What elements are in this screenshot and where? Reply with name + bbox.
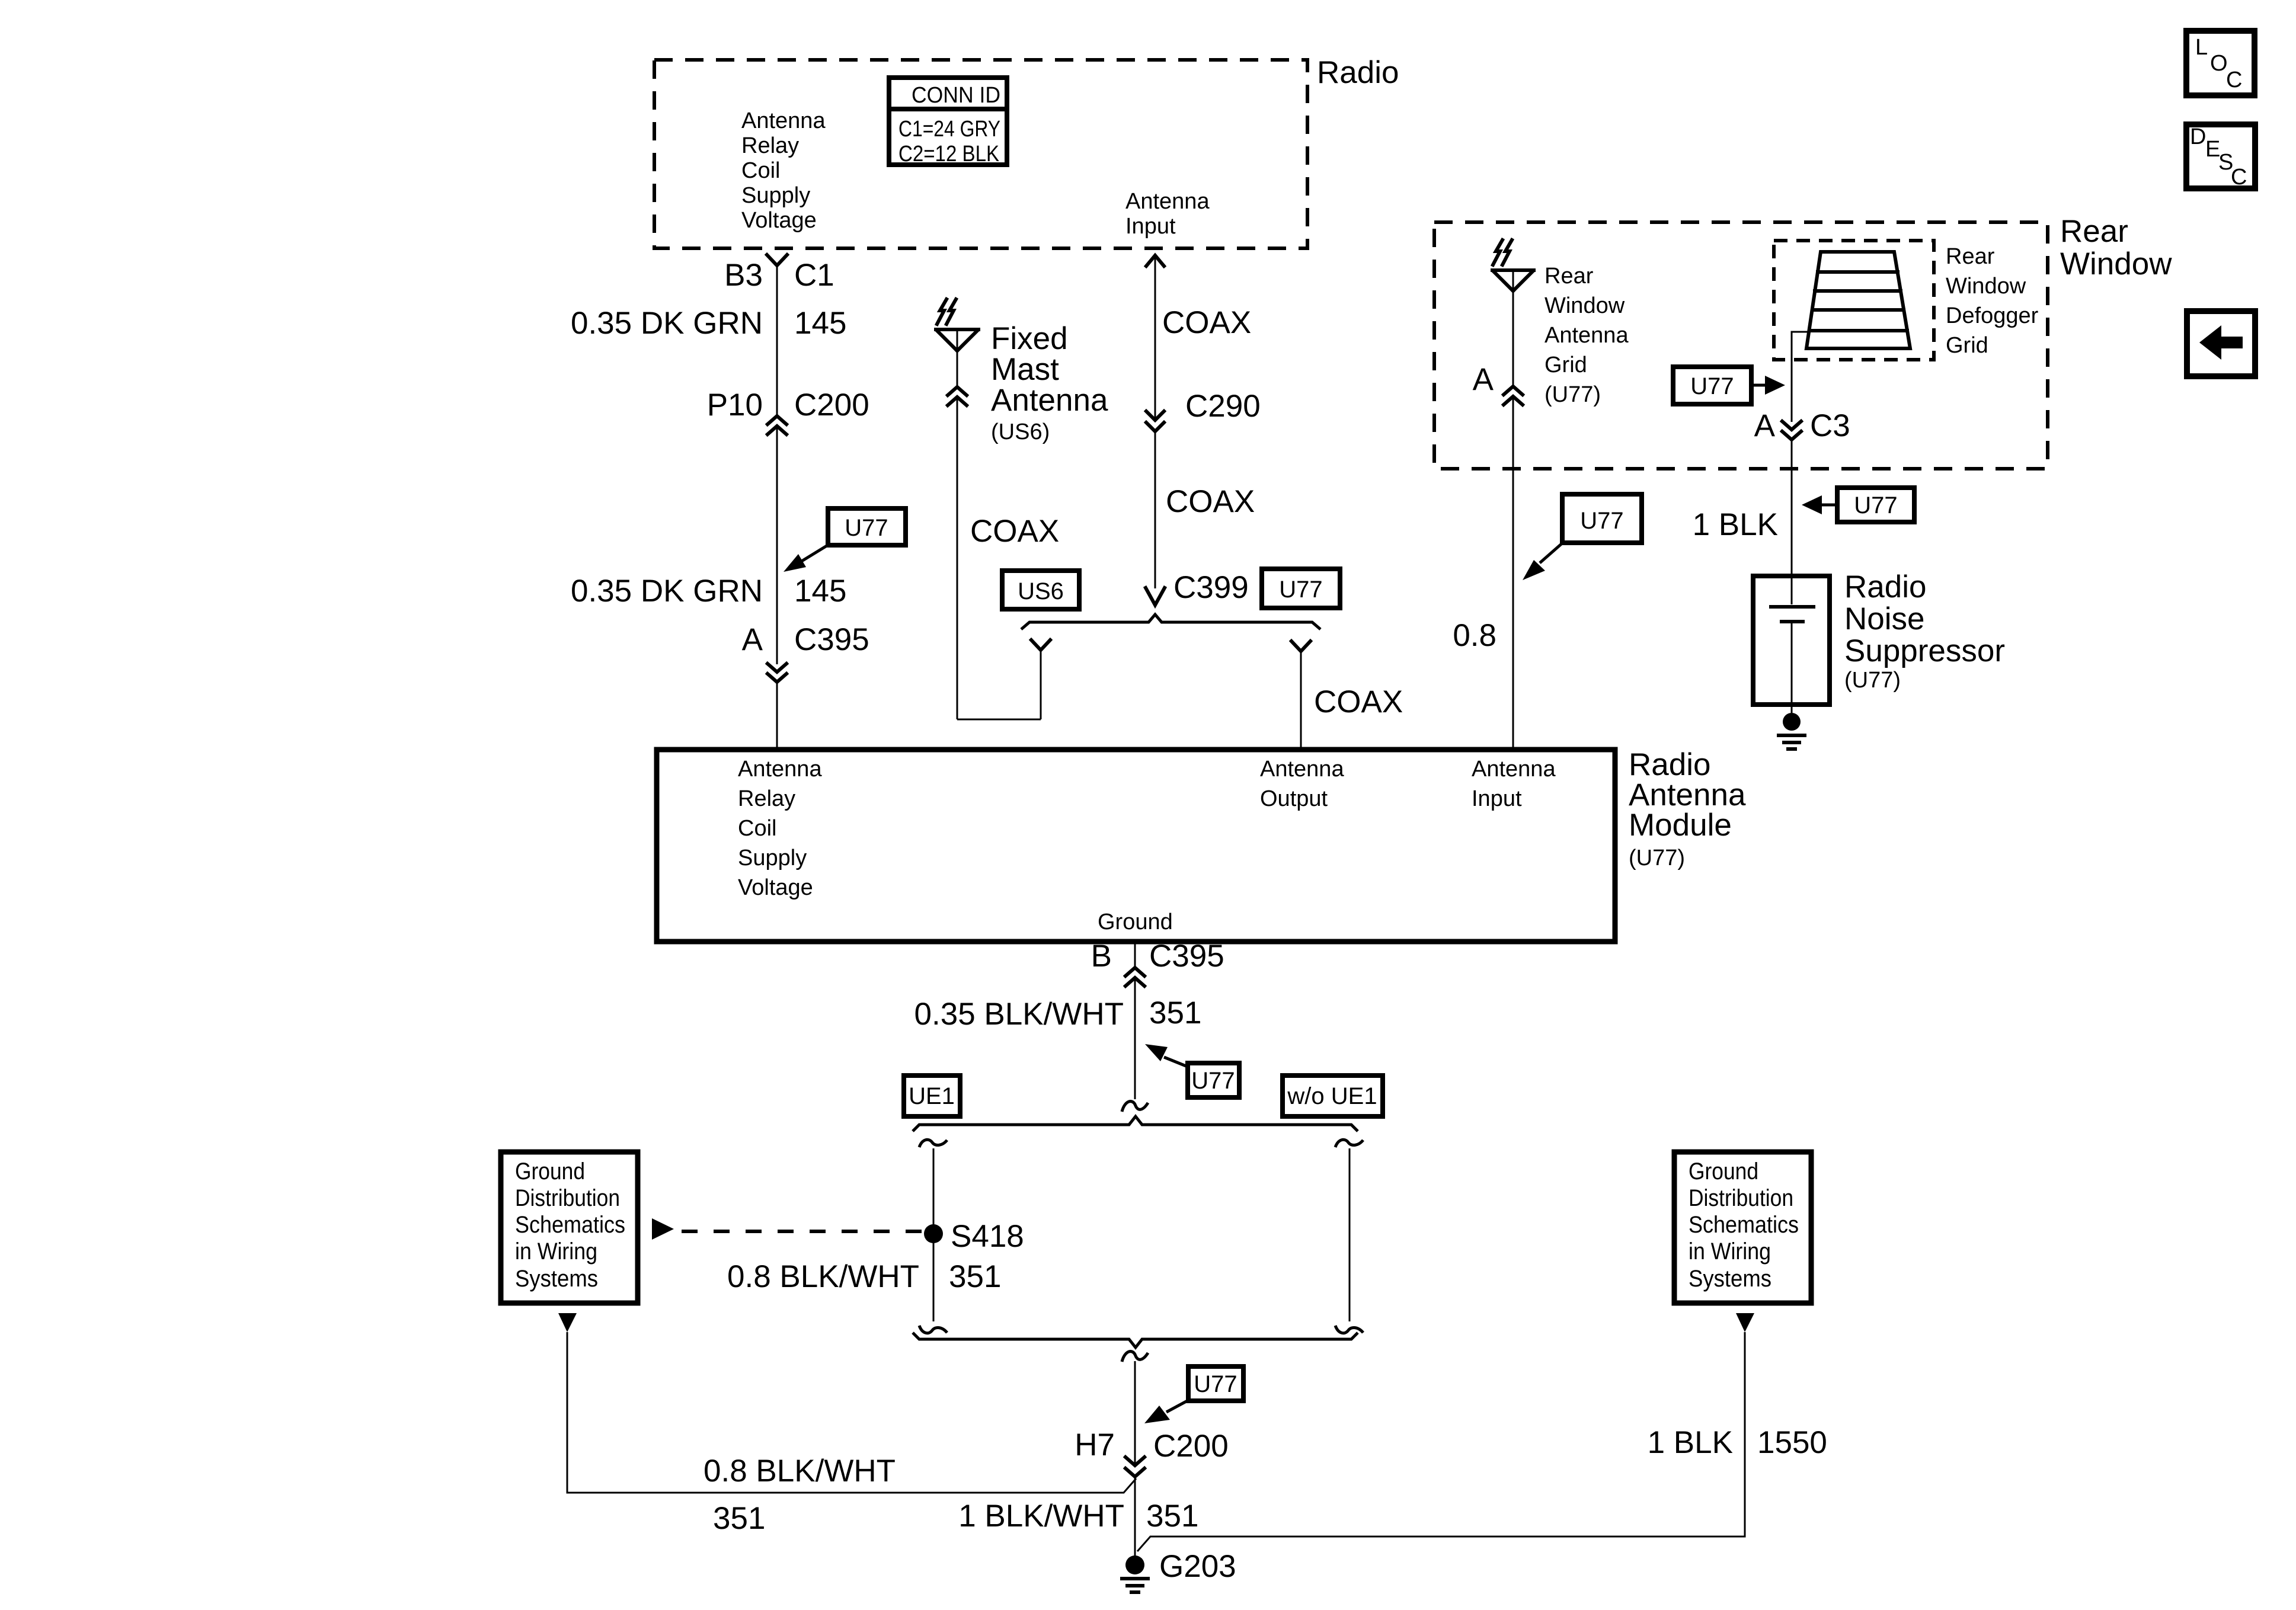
svg-text:Ground: Ground bbox=[1689, 1158, 1758, 1185]
nav box back arrow bbox=[2187, 311, 2255, 376]
component Rear Window Defogger Grid (dashed box) bbox=[1774, 241, 1934, 360]
reference box Ground Distribution Schematics in Wiring Systems (right) bbox=[1674, 1152, 1811, 1303]
label Fixed Mast Antenna (US6) bbox=[991, 321, 1108, 444]
svg-text:145: 145 bbox=[794, 574, 846, 609]
svg-text:Radio: Radio bbox=[1844, 569, 1926, 604]
component Radio Antenna Module (box) bbox=[657, 750, 1615, 942]
svg-text:in Wiring: in Wiring bbox=[515, 1238, 597, 1265]
tag w/o UE1 bbox=[1283, 1076, 1383, 1116]
wire 0.35 DK GRN 145 (C1 to C200) bbox=[776, 265, 778, 416]
svg-text:S418: S418 bbox=[951, 1219, 1024, 1254]
svg-text:0.35 DK GRN: 0.35 DK GRN bbox=[571, 306, 763, 341]
svg-text:UE1: UE1 bbox=[909, 1083, 955, 1109]
antenna Rear Window Antenna Grid (symbol) bbox=[1492, 240, 1534, 386]
node S418 (splice dot) bbox=[924, 1224, 943, 1243]
node option Y (mast branch) bbox=[1031, 640, 1050, 650]
svg-text:U77: U77 bbox=[845, 515, 888, 541]
svg-text:Grid: Grid bbox=[1946, 333, 1988, 358]
defogger grid symbol (trapezoid) bbox=[1806, 252, 1910, 348]
svg-text:C399: C399 bbox=[1173, 570, 1249, 605]
connector C1 pin B3 (Y symbol) bbox=[767, 255, 787, 265]
wire 1 BLK 1550 (right ground branch) bbox=[1137, 1332, 1745, 1551]
connector C395 pin B (double chevron) bbox=[1125, 968, 1144, 986]
svg-text:Distribution: Distribution bbox=[1689, 1185, 1793, 1211]
wire 0.35 DK GRN 145 (C200 to C395) bbox=[776, 428, 778, 664]
svg-text:O: O bbox=[2210, 51, 2228, 76]
svg-text:351: 351 bbox=[713, 1501, 765, 1536]
node option Y (antenna output branch) bbox=[1291, 641, 1310, 651]
svg-text:Distribution: Distribution bbox=[515, 1185, 620, 1211]
svg-text:COAX: COAX bbox=[1162, 305, 1251, 340]
wire 0.8 (rear antenna to module) bbox=[1512, 398, 1514, 750]
svg-text:0.35 BLK/WHT: 0.35 BLK/WHT bbox=[914, 997, 1124, 1032]
brace C399 option split bbox=[1021, 614, 1320, 629]
pin label Antenna Output (module) bbox=[1260, 757, 1344, 811]
svg-text:Rear: Rear bbox=[2060, 214, 2128, 249]
bracket w/o UE1 option (right) bbox=[1335, 1140, 1363, 1333]
svg-text:C3: C3 bbox=[1810, 408, 1850, 443]
connector (rear antenna double chevron) bbox=[1504, 386, 1523, 405]
svg-text:U77: U77 bbox=[1690, 373, 1734, 399]
svg-text:C200: C200 bbox=[794, 388, 869, 422]
svg-text:C395: C395 bbox=[794, 622, 869, 657]
svg-text:C: C bbox=[2226, 68, 2242, 92]
pin label Antenna Relay Coil Supply Voltage (Radio) bbox=[741, 108, 826, 233]
svg-text:L: L bbox=[2195, 35, 2208, 60]
svg-text:Schematics: Schematics bbox=[515, 1212, 625, 1238]
ground G203 bbox=[1122, 1555, 1148, 1592]
tag US6 bbox=[1002, 571, 1079, 609]
svg-text:(U77): (U77) bbox=[1629, 846, 1685, 870]
svg-text:Window: Window bbox=[2060, 247, 2172, 281]
nav box LOC bbox=[2186, 31, 2255, 95]
svg-text:P10: P10 bbox=[707, 388, 763, 422]
svg-text:COAX: COAX bbox=[1166, 484, 1255, 519]
svg-text:Window: Window bbox=[1544, 293, 1625, 318]
svg-text:Supply: Supply bbox=[741, 183, 810, 208]
svg-text:Antenna: Antenna bbox=[1260, 757, 1344, 782]
svg-text:Ground: Ground bbox=[1098, 910, 1173, 934]
svg-text:Voltage: Voltage bbox=[738, 875, 813, 900]
label Radio Noise Suppressor (U77) bbox=[1844, 569, 2005, 693]
squiggle (wire start below option brace) bbox=[1122, 1352, 1148, 1362]
bracket UE1 option (left) bbox=[919, 1140, 947, 1333]
connector C200 (double chevron) bbox=[768, 416, 786, 434]
label Radio Antenna Module (U77) bbox=[1629, 747, 1746, 870]
svg-text:Antenna: Antenna bbox=[1544, 323, 1629, 348]
wire (brace to H7) bbox=[1134, 1361, 1136, 1465]
wire COAX (mast to option joint) bbox=[957, 399, 1041, 719]
callout U77 (left wire) bbox=[784, 508, 906, 572]
svg-text:B3: B3 bbox=[724, 258, 763, 293]
svg-text:(U77): (U77) bbox=[1844, 668, 1901, 693]
svg-text:Supply: Supply bbox=[738, 846, 807, 870]
arrowhead (wire end at C399) bbox=[1146, 588, 1165, 605]
svg-text:0.8 BLK/WHT: 0.8 BLK/WHT bbox=[727, 1259, 919, 1294]
svg-text:COAX: COAX bbox=[1314, 684, 1403, 719]
svg-text:Fixed: Fixed bbox=[991, 321, 1068, 356]
svg-text:C1=24 GRY: C1=24 GRY bbox=[898, 117, 1000, 142]
svg-text:Rear: Rear bbox=[1946, 244, 1995, 269]
svg-text:Antenna: Antenna bbox=[991, 383, 1108, 418]
svg-text:0.35 DK GRN: 0.35 DK GRN bbox=[571, 574, 763, 609]
svg-text:Module: Module bbox=[1629, 808, 1732, 843]
svg-text:U77: U77 bbox=[1580, 508, 1623, 534]
pin label Antenna Relay Coil Supply Voltage (module) bbox=[738, 757, 822, 900]
ground (suppressor) bbox=[1779, 713, 1805, 749]
wire 0.35 BLK/WHT 351 bbox=[1134, 980, 1136, 1099]
svg-text:H7: H7 bbox=[1075, 1427, 1115, 1462]
svg-text:(US6): (US6) bbox=[991, 420, 1050, 444]
svg-text:C395: C395 bbox=[1149, 939, 1224, 974]
reference box Ground Distribution Schematics in Wiring Systems (left) bbox=[501, 1152, 638, 1303]
svg-text:Systems: Systems bbox=[1689, 1266, 1771, 1292]
svg-text:A: A bbox=[742, 622, 763, 657]
svg-text:1 BLK: 1 BLK bbox=[1648, 1425, 1733, 1460]
svg-text:Antenna: Antenna bbox=[738, 757, 822, 782]
svg-text:Output: Output bbox=[1260, 786, 1328, 811]
callout U77 (rear antenna wire) bbox=[1523, 494, 1642, 580]
svg-text:U77: U77 bbox=[1279, 577, 1322, 603]
connector C200 pin H7 (double chevron) bbox=[1125, 1457, 1144, 1477]
svg-text:351: 351 bbox=[1149, 996, 1201, 1030]
arrowhead (to S418 reference) bbox=[652, 1218, 674, 1240]
svg-text:w/o UE1: w/o UE1 bbox=[1287, 1083, 1377, 1109]
svg-text:A: A bbox=[1754, 408, 1776, 443]
svg-text:Antenna: Antenna bbox=[1472, 757, 1556, 782]
svg-text:Relay: Relay bbox=[738, 786, 795, 811]
svg-text:(U77): (U77) bbox=[1544, 382, 1601, 407]
nav box DESC bbox=[2186, 124, 2255, 190]
wire 1 BLK/WHT 351 (H7 to G203) bbox=[1134, 1477, 1136, 1557]
wire COAX (C290 to C399) bbox=[1155, 431, 1156, 588]
svg-text:351: 351 bbox=[1146, 1499, 1198, 1534]
component Radio Noise Suppressor (capacitor) bbox=[1753, 576, 1830, 713]
dashed reference wire to S418 bbox=[682, 1230, 922, 1233]
svg-text:G203: G203 bbox=[1159, 1549, 1236, 1584]
svg-text:Noise: Noise bbox=[1844, 601, 1925, 636]
svg-text:Antenna: Antenna bbox=[741, 108, 826, 133]
svg-text:C200: C200 bbox=[1153, 1429, 1229, 1464]
svg-text:U77: U77 bbox=[1194, 1371, 1237, 1397]
table CONN ID bbox=[889, 78, 1007, 167]
svg-text:COAX: COAX bbox=[970, 514, 1059, 549]
callout U77 (defogger, arrow right) bbox=[1673, 367, 1785, 404]
svg-text:Radio: Radio bbox=[1317, 55, 1399, 90]
connector (mast wire double chevron) bbox=[948, 387, 967, 405]
wire COAX Antenna Input (radio to C399) bbox=[1146, 255, 1164, 420]
svg-text:Mast: Mast bbox=[991, 352, 1059, 387]
svg-text:US6: US6 bbox=[1018, 578, 1064, 604]
svg-text:CONN ID: CONN ID bbox=[912, 83, 1000, 108]
wire (defogger to C3) bbox=[1792, 332, 1811, 422]
svg-text:Ground: Ground bbox=[515, 1158, 585, 1185]
svg-text:Rear: Rear bbox=[1544, 264, 1594, 289]
wire 0.8 BLK/WHT 351 (left ground branch) bbox=[567, 1332, 1136, 1493]
svg-text:Coil: Coil bbox=[738, 816, 776, 841]
pin label Antenna Input (Radio) bbox=[1125, 189, 1210, 239]
wire 1 BLK (C3 to suppressor) bbox=[1791, 440, 1793, 576]
svg-text:145: 145 bbox=[794, 306, 846, 341]
svg-text:Schematics: Schematics bbox=[1689, 1212, 1799, 1238]
svg-text:Suppressor: Suppressor bbox=[1844, 633, 2005, 668]
svg-text:Grid: Grid bbox=[1544, 353, 1587, 377]
svg-text:C2=12 BLK: C2=12 BLK bbox=[898, 142, 999, 167]
svg-text:1 BLK/WHT: 1 BLK/WHT bbox=[958, 1499, 1124, 1534]
callout U77 (H7 wire) bbox=[1144, 1366, 1243, 1423]
svg-text:C290: C290 bbox=[1185, 389, 1261, 424]
pin label Antenna Input (module) bbox=[1472, 757, 1556, 811]
svg-text:Antenna: Antenna bbox=[1125, 189, 1210, 214]
svg-text:B: B bbox=[1091, 939, 1112, 974]
arrowhead (below left reference box) bbox=[558, 1313, 577, 1332]
connector C290 (double chevron) bbox=[1146, 411, 1164, 431]
svg-text:Systems: Systems bbox=[515, 1266, 598, 1292]
svg-text:351: 351 bbox=[949, 1259, 1001, 1294]
svg-text:Defogger: Defogger bbox=[1946, 303, 2039, 328]
svg-text:Coil: Coil bbox=[741, 158, 780, 183]
svg-text:0.8 BLK/WHT: 0.8 BLK/WHT bbox=[703, 1454, 896, 1489]
svg-text:U77: U77 bbox=[1191, 1068, 1235, 1094]
svg-text:C1: C1 bbox=[794, 258, 834, 293]
svg-text:D: D bbox=[2190, 124, 2206, 149]
svg-text:Voltage: Voltage bbox=[741, 208, 817, 233]
wire COAX (to module Antenna Output) bbox=[1300, 651, 1302, 750]
svg-text:0.8: 0.8 bbox=[1453, 618, 1496, 653]
tag UE1 bbox=[904, 1076, 960, 1116]
wire (C395 to module) bbox=[776, 682, 778, 750]
svg-text:Input: Input bbox=[1472, 786, 1522, 811]
squiggle (wire end above option brace) bbox=[1122, 1102, 1148, 1112]
brace option split (top) bbox=[913, 1116, 1358, 1131]
svg-text:C: C bbox=[2231, 165, 2247, 190]
wire (module ground pin down) bbox=[1134, 942, 1136, 968]
label Rear Window bbox=[2060, 214, 2172, 281]
svg-text:Relay: Relay bbox=[741, 133, 799, 158]
callout U77 (ground wire) bbox=[1145, 1044, 1239, 1097]
callout U77 (suppressor wire, arrow left) bbox=[1802, 488, 1914, 522]
connector C3 (double chevron) bbox=[1782, 421, 1801, 440]
svg-text:Input: Input bbox=[1125, 214, 1176, 239]
svg-text:U77: U77 bbox=[1854, 492, 1897, 518]
svg-text:1 BLK: 1 BLK bbox=[1693, 507, 1778, 542]
label Rear Window Antenna Grid (U77) bbox=[1544, 264, 1629, 407]
label Rear Window Defogger Grid bbox=[1946, 244, 2039, 358]
arrowhead (below right reference box) bbox=[1736, 1313, 1754, 1332]
antenna Fixed Mast Antenna (symbol) bbox=[936, 299, 978, 387]
component Rear Window (dashed outline box) bbox=[1434, 222, 2048, 469]
svg-text:1550: 1550 bbox=[1757, 1425, 1827, 1460]
brace option merge (bottom) bbox=[913, 1333, 1358, 1347]
svg-text:in Wiring: in Wiring bbox=[1689, 1238, 1771, 1265]
component Radio (dashed outline box) bbox=[654, 60, 1307, 248]
svg-text:A: A bbox=[1473, 362, 1494, 397]
tag U77 (C399) bbox=[1262, 569, 1340, 608]
connector C395 pin A (double chevron) bbox=[768, 664, 786, 682]
svg-text:Window: Window bbox=[1946, 274, 2026, 299]
